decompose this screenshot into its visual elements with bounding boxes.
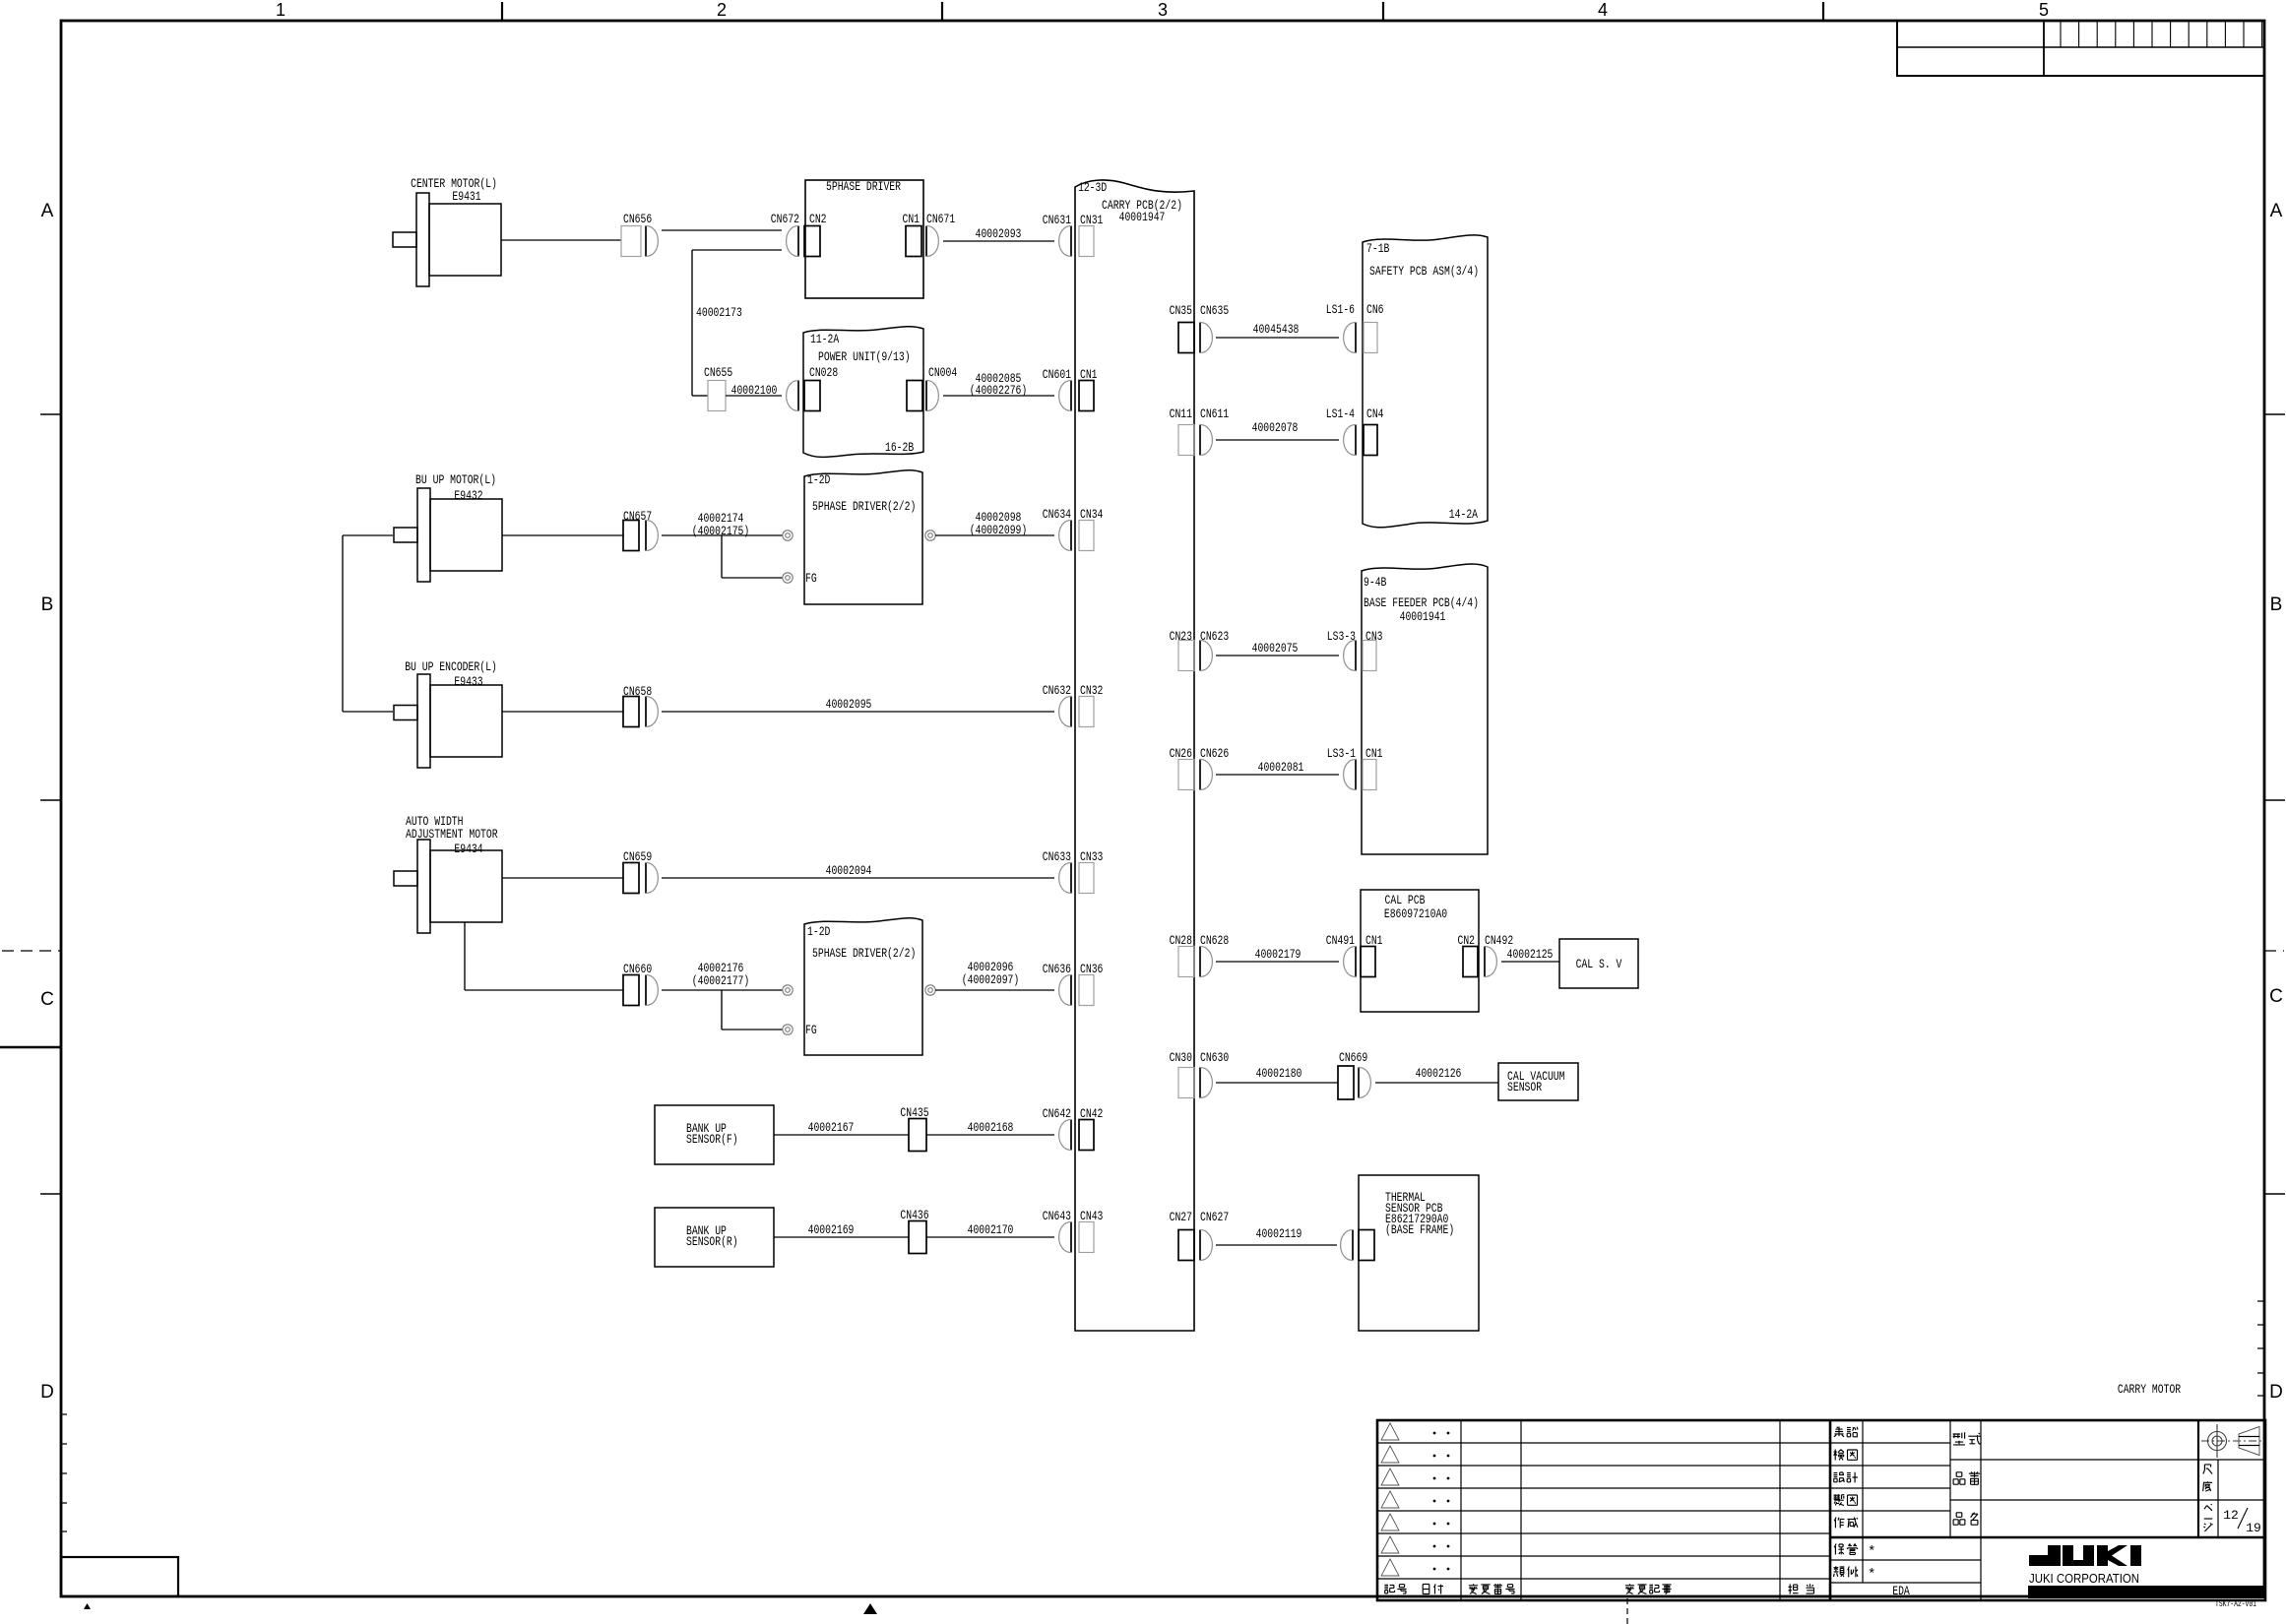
svg-text:40002081: 40002081 bbox=[1258, 760, 1304, 775]
connector thermal dplug bbox=[1352, 1230, 1354, 1261]
svg-text:CN643: CN643 bbox=[1043, 1209, 1071, 1223]
svg-text:CN004: CN004 bbox=[928, 365, 957, 380]
wire CN657 to driver bbox=[662, 534, 783, 536]
connector CN11 bbox=[1178, 425, 1194, 456]
revision table divider thick bbox=[1829, 1420, 1832, 1600]
bottom small mark triangle left bbox=[84, 1603, 91, 1609]
svg-text:B: B bbox=[41, 594, 54, 615]
row tick left A/B bbox=[40, 413, 61, 415]
svg-text:CN27: CN27 bbox=[1170, 1210, 1192, 1224]
svg-text:12: 12 bbox=[2223, 1508, 2239, 1523]
terminal input driver 2 bbox=[783, 985, 793, 995]
svg-text:4: 4 bbox=[1598, 0, 1608, 20]
svg-text:CN1: CN1 bbox=[1365, 746, 1383, 761]
wire 40002075 bbox=[1216, 655, 1339, 656]
connector CN26 bbox=[1178, 760, 1194, 790]
top right header table bbox=[1897, 21, 2264, 76]
svg-text:5: 5 bbox=[2039, 0, 2049, 20]
wire 40002085 bbox=[943, 395, 1054, 397]
svg-text:CN671: CN671 bbox=[926, 212, 955, 226]
svg-text:9-4B: 9-4B bbox=[1364, 575, 1387, 590]
connector CN6 bbox=[1364, 323, 1377, 353]
connector CN669 bbox=[1338, 1066, 1354, 1099]
svg-text:D: D bbox=[2269, 1382, 2283, 1403]
svg-text:CAL S. V: CAL S. V bbox=[1576, 957, 1622, 971]
type rows lines bbox=[1950, 1459, 2265, 1461]
page slash bbox=[2238, 1508, 2248, 1529]
label kanji 品名 bbox=[1953, 1513, 1965, 1525]
connector thermal rect bbox=[1359, 1230, 1374, 1261]
wire CN672 to junction lower bbox=[692, 249, 782, 251]
PCB box BASE FEEDER PCB(4/4) bbox=[1362, 564, 1488, 854]
box 5PHASE DRIVER(2/2) upper bbox=[804, 470, 922, 604]
connector CN35 bbox=[1178, 323, 1194, 353]
svg-text:CN658: CN658 bbox=[623, 684, 652, 699]
wire FG junction 2 bbox=[721, 990, 723, 1030]
connector CN27 bbox=[1178, 1230, 1194, 1261]
wire motor E9432 to CN657 bbox=[502, 534, 623, 536]
svg-text:CN657: CN657 bbox=[623, 509, 652, 524]
svg-text:CN42: CN42 bbox=[1080, 1106, 1103, 1121]
connector CN628 bbox=[1199, 947, 1201, 977]
wire 40002093 bbox=[943, 240, 1054, 242]
black bar bottom bbox=[2028, 1586, 2266, 1598]
svg-text:40002119: 40002119 bbox=[1256, 1226, 1302, 1241]
connector CN1 bbox=[1079, 381, 1094, 411]
svg-text:5PHASE DRIVER(2/2): 5PHASE DRIVER(2/2) bbox=[812, 499, 916, 514]
label kanji 変更番号 bbox=[1469, 1584, 1478, 1593]
svg-text:(40002177): (40002177) bbox=[692, 973, 750, 988]
svg-text:SENSOR: SENSOR bbox=[1507, 1080, 1542, 1094]
svg-text:CN630: CN630 bbox=[1200, 1050, 1229, 1065]
connector CN36 bbox=[1079, 975, 1094, 1006]
svg-text:CN642: CN642 bbox=[1043, 1106, 1071, 1121]
terminal FG driver 2 bbox=[783, 1025, 793, 1034]
svg-text:CN2: CN2 bbox=[1458, 933, 1476, 948]
connector CN635 bbox=[1199, 323, 1201, 353]
svg-text:CN655: CN655 bbox=[704, 365, 732, 380]
zone tick top 4/5 bbox=[1822, 2, 1824, 21]
svg-text:CARRY MOTOR: CARRY MOTOR bbox=[2118, 1382, 2181, 1397]
svg-text:40002169: 40002169 bbox=[808, 1222, 855, 1237]
connector CN631 bbox=[1070, 226, 1072, 257]
motor E9434 AUTO WIDTH ADJUSTMENT MOTOR bbox=[430, 850, 502, 922]
svg-text:(BASE FRAME): (BASE FRAME) bbox=[1385, 1222, 1454, 1237]
svg-text:A: A bbox=[2270, 201, 2283, 221]
centre fold mark left bbox=[0, 1046, 61, 1048]
svg-text:40002094: 40002094 bbox=[826, 863, 872, 878]
svg-text:CN11: CN11 bbox=[1170, 406, 1193, 421]
svg-text:CN633: CN633 bbox=[1043, 849, 1071, 864]
svg-text:CN3: CN3 bbox=[1365, 629, 1383, 644]
svg-text:C: C bbox=[40, 989, 54, 1010]
svg-text:CN23: CN23 bbox=[1170, 629, 1192, 644]
svg-text:CN491: CN491 bbox=[1326, 933, 1355, 948]
svg-text:B: B bbox=[2270, 594, 2283, 615]
connector CN672 bbox=[797, 226, 799, 257]
wire motor E9434 bottom drop bbox=[464, 922, 466, 990]
wire motor E9433 to CN658 bbox=[502, 711, 623, 713]
connector CN30 bbox=[1178, 1068, 1194, 1098]
svg-text:14-2A: 14-2A bbox=[1449, 507, 1478, 522]
connector CN004 dplug bbox=[925, 381, 927, 411]
svg-text:E9431: E9431 bbox=[452, 189, 480, 204]
connector CN004 of power unit bbox=[907, 381, 922, 411]
label kanji ページ vertical bbox=[2204, 1504, 2212, 1511]
svg-text:CN6: CN6 bbox=[1366, 302, 1384, 317]
svg-text:CN492: CN492 bbox=[1485, 933, 1513, 948]
connector CN633 bbox=[1070, 863, 1072, 894]
svg-text:CN627: CN627 bbox=[1200, 1210, 1229, 1224]
svg-text:40002180: 40002180 bbox=[1256, 1066, 1302, 1081]
connector CN4 bbox=[1364, 425, 1377, 456]
svg-text:40002168: 40002168 bbox=[968, 1120, 1014, 1135]
svg-text:1: 1 bbox=[276, 0, 286, 20]
svg-text:CN632: CN632 bbox=[1043, 683, 1071, 698]
projection symbol cone bbox=[2239, 1427, 2259, 1456]
svg-text:C: C bbox=[2269, 986, 2283, 1007]
connector LS3-1 bbox=[1355, 760, 1357, 790]
svg-text:CN28: CN28 bbox=[1170, 933, 1192, 948]
svg-text:CN669: CN669 bbox=[1339, 1050, 1367, 1065]
wire junction to CN655 bbox=[692, 395, 708, 397]
connector CN671 bbox=[925, 226, 927, 257]
svg-text:CN672: CN672 bbox=[771, 212, 799, 226]
svg-text:LS1-6: LS1-6 bbox=[1326, 302, 1355, 317]
svg-text:1-2D: 1-2D bbox=[807, 924, 831, 939]
terminal FG driver 1 bbox=[783, 573, 793, 583]
label kanji 記号 bbox=[1384, 1585, 1394, 1593]
vertical line 2012 bbox=[1980, 1420, 1982, 1600]
box POWER UNIT(9/13) bbox=[803, 327, 923, 458]
svg-text:CN26: CN26 bbox=[1170, 746, 1192, 761]
svg-text:E9432: E9432 bbox=[454, 488, 482, 503]
svg-text:11-2A: 11-2A bbox=[810, 332, 839, 346]
svg-text:CN32: CN32 bbox=[1080, 683, 1103, 698]
label kanji 変更記事 bbox=[1625, 1584, 1634, 1593]
connector CN657 bbox=[623, 521, 639, 551]
svg-text:(40002175): (40002175) bbox=[692, 524, 750, 538]
svg-text:(40002276): (40002276) bbox=[970, 383, 1028, 398]
bottom centre mark triangle bbox=[863, 1603, 877, 1614]
label kanji 尺度 vertical bbox=[2203, 1465, 2212, 1474]
motor E9431 CENTER MOTOR(L) bbox=[429, 204, 501, 276]
svg-text:40002093: 40002093 bbox=[976, 226, 1022, 241]
svg-text:5PHASE DRIVER: 5PHASE DRIVER bbox=[826, 179, 901, 194]
connector CN28 bbox=[1178, 947, 1194, 977]
connector CN028 of power unit bbox=[804, 381, 820, 411]
terminal output driver 2 bbox=[925, 985, 935, 995]
vertical line type col bbox=[1949, 1420, 1951, 1537]
svg-text:CN435: CN435 bbox=[900, 1105, 928, 1120]
connector CN1 base feeder bbox=[1363, 760, 1376, 790]
connector CN1 of 5phase driver bbox=[906, 226, 921, 257]
bottom dashed fold line bbox=[1626, 1598, 1628, 1624]
svg-text:CN36: CN36 bbox=[1080, 962, 1103, 976]
wire 40002119 bbox=[1216, 1244, 1337, 1246]
wire 40002167 bbox=[774, 1134, 909, 1136]
approval row lines bbox=[1830, 1442, 1950, 1444]
svg-text:SAFETY PCB ASM(3/4): SAFETY PCB ASM(3/4) bbox=[1369, 264, 1479, 279]
svg-text:CN2: CN2 bbox=[809, 212, 827, 226]
box 5PHASE DRIVER bbox=[805, 180, 923, 298]
wire driver2 to CN636 bbox=[935, 989, 1054, 991]
row tick left B/C bbox=[40, 799, 61, 801]
svg-text:3: 3 bbox=[1158, 0, 1168, 20]
svg-text:CN631: CN631 bbox=[1043, 213, 1071, 227]
row tick left C/D bbox=[40, 1193, 61, 1195]
connector CN627 bbox=[1199, 1230, 1201, 1261]
wire 40002179 bbox=[1216, 961, 1339, 963]
svg-text:7-1B: 7-1B bbox=[1366, 241, 1390, 256]
JUKI logo bbox=[2029, 1545, 2061, 1566]
wire 40045438 bbox=[1216, 337, 1339, 339]
wire motor E9431 to CN656 bbox=[501, 239, 621, 241]
svg-text:CN611: CN611 bbox=[1200, 406, 1229, 421]
wire 40002100 bbox=[726, 395, 782, 397]
svg-text:SENSOR(F): SENSOR(F) bbox=[686, 1132, 738, 1147]
zone tick top 1/2 bbox=[501, 2, 503, 21]
svg-text:FG: FG bbox=[805, 1023, 817, 1037]
box CAL S. V bbox=[1559, 939, 1638, 988]
svg-text:EDA: EDA bbox=[1892, 1584, 1910, 1598]
label kanji 製図 bbox=[1834, 1494, 1845, 1505]
svg-text:POWER UNIT(9/13): POWER UNIT(9/13) bbox=[818, 349, 911, 364]
svg-text:2: 2 bbox=[717, 0, 727, 20]
wire 40002170 bbox=[926, 1236, 1054, 1238]
svg-text:BU UP MOTOR(L): BU UP MOTOR(L) bbox=[415, 472, 496, 487]
svg-text:CN30: CN30 bbox=[1170, 1050, 1192, 1065]
connector CN611 bbox=[1199, 425, 1201, 456]
svg-text:CN659: CN659 bbox=[623, 849, 652, 864]
svg-text:CN1: CN1 bbox=[903, 212, 921, 226]
connector CN660 bbox=[623, 975, 639, 1006]
PCB box SAFETY PCB ASM(3/4) bbox=[1363, 235, 1488, 528]
title block outer frame bbox=[1377, 1420, 2265, 1600]
svg-text:16-2B: 16-2B bbox=[885, 440, 914, 455]
wire 40002173 vertical bbox=[691, 250, 693, 396]
svg-text:40001947: 40001947 bbox=[1119, 210, 1166, 224]
scale ticks left border bbox=[61, 1414, 67, 1531]
svg-text:CN626: CN626 bbox=[1200, 746, 1229, 761]
connector CN623 bbox=[1199, 641, 1201, 671]
wire driver1 to CN634 bbox=[935, 534, 1054, 536]
terminal input driver 1 bbox=[783, 531, 793, 540]
svg-text:CN1: CN1 bbox=[1080, 367, 1098, 382]
approval block thick separator bbox=[1830, 1536, 2265, 1538]
row tick right C/D bbox=[2264, 1193, 2285, 1195]
svg-text:CN656: CN656 bbox=[623, 212, 652, 226]
label kanji 保管 bbox=[1834, 1544, 1844, 1555]
label kanji 類似 bbox=[1834, 1566, 1845, 1577]
svg-text:CN660: CN660 bbox=[623, 962, 652, 976]
svg-text:E9433: E9433 bbox=[454, 674, 482, 689]
wire 40002169 bbox=[774, 1236, 909, 1238]
svg-text:FG: FG bbox=[805, 571, 817, 586]
svg-text:(40002099): (40002099) bbox=[970, 523, 1028, 537]
label kanji 検図 bbox=[1834, 1450, 1845, 1461]
box BANK UP SENSOR(R) bbox=[655, 1208, 774, 1267]
svg-text:LS1-4: LS1-4 bbox=[1326, 406, 1355, 421]
svg-text:40002173: 40002173 bbox=[696, 305, 742, 320]
connector CN655 bbox=[708, 381, 726, 411]
connector CN1 cal pcb bbox=[1361, 947, 1375, 977]
label kanji 日付 bbox=[1423, 1585, 1429, 1594]
fold dashed mark left bbox=[2, 950, 61, 952]
fold dashed mark right bbox=[2264, 950, 2284, 952]
connector CN656 bbox=[621, 226, 641, 257]
connector CN643 bbox=[1070, 1222, 1072, 1253]
connector CN32 bbox=[1079, 697, 1094, 727]
wire 40002095 bbox=[662, 711, 1054, 713]
svg-text:CN4: CN4 bbox=[1366, 406, 1384, 421]
connector CN436 bbox=[909, 1221, 926, 1254]
connector CN632 bbox=[1070, 697, 1072, 727]
svg-text:E86097210A0: E86097210A0 bbox=[1384, 906, 1447, 921]
connector CN659 bbox=[623, 863, 639, 894]
connector LS1-4 bbox=[1355, 425, 1357, 456]
svg-text:CAL PCB: CAL PCB bbox=[1385, 893, 1426, 907]
svg-text:*: * bbox=[1868, 1544, 1875, 1560]
svg-text:JUKI CORPORATION: JUKI CORPORATION bbox=[2029, 1571, 2139, 1586]
top right table tick columns bbox=[2061, 21, 2262, 47]
connector CN3 bbox=[1363, 641, 1376, 671]
wire 40002126 bbox=[1375, 1082, 1498, 1084]
zone tick top 3/4 bbox=[1382, 2, 1384, 21]
connector CN31 bbox=[1079, 226, 1094, 257]
connector CN2 of 5phase driver bbox=[804, 226, 820, 257]
svg-text:40002179: 40002179 bbox=[1255, 947, 1302, 962]
svg-text:40045438: 40045438 bbox=[1253, 322, 1300, 337]
svg-text:TSK7-A2-V01: TSK7-A2-V01 bbox=[2215, 1599, 2256, 1609]
connector CN630 bbox=[1199, 1068, 1201, 1098]
svg-text:BASE FEEDER PCB(4/4): BASE FEEDER PCB(4/4) bbox=[1364, 595, 1479, 610]
svg-text:D: D bbox=[40, 1382, 54, 1403]
row tick right B/C bbox=[2264, 799, 2285, 801]
svg-text:40002078: 40002078 bbox=[1252, 420, 1299, 435]
connector CN43 bbox=[1079, 1222, 1094, 1253]
svg-text:5PHASE DRIVER(2/2): 5PHASE DRIVER(2/2) bbox=[812, 946, 916, 961]
revision table column lines bbox=[1460, 1420, 1462, 1600]
svg-text:1-2D: 1-2D bbox=[807, 472, 831, 487]
svg-text:*: * bbox=[1868, 1567, 1875, 1583]
svg-text:CN623: CN623 bbox=[1200, 629, 1229, 644]
svg-text:CN436: CN436 bbox=[900, 1208, 928, 1222]
svg-text:CN35: CN35 bbox=[1170, 303, 1192, 318]
svg-text:40001941: 40001941 bbox=[1400, 609, 1446, 624]
connector CN626 bbox=[1199, 760, 1201, 790]
wire link E9433 left bbox=[343, 711, 393, 713]
svg-text:LS3-3: LS3-3 bbox=[1327, 629, 1356, 644]
motor E9433 BU UP ENCODER(L) bbox=[430, 685, 502, 757]
label kanji 担当 bbox=[1788, 1584, 1798, 1593]
svg-text:CN31: CN31 bbox=[1080, 213, 1104, 227]
connector CN658 bbox=[623, 697, 639, 727]
connector CN435 bbox=[909, 1119, 926, 1152]
connector CN34 bbox=[1079, 521, 1094, 551]
svg-text:40002126: 40002126 bbox=[1416, 1066, 1462, 1081]
wire 40002168 bbox=[926, 1134, 1054, 1136]
wire link E9432 left bbox=[343, 534, 393, 536]
PCB box CARRY PCB(2/2) bbox=[1075, 180, 1194, 1331]
box BANK UP SENSOR(F) bbox=[655, 1105, 774, 1164]
bottom left corner box bbox=[61, 1557, 178, 1596]
svg-text:BU UP ENCODER(L): BU UP ENCODER(L) bbox=[405, 659, 497, 674]
connector LS3-3 bbox=[1355, 641, 1357, 671]
wire 40002125 bbox=[1501, 961, 1559, 963]
svg-text:A: A bbox=[41, 201, 54, 221]
row tick right A/B bbox=[2264, 413, 2285, 415]
svg-text:SENSOR(R): SENSOR(R) bbox=[686, 1234, 738, 1249]
svg-text:40002167: 40002167 bbox=[808, 1120, 855, 1135]
svg-text:40002125: 40002125 bbox=[1507, 947, 1554, 962]
approval column line bbox=[1862, 1420, 1864, 1583]
connector CN491 bbox=[1355, 947, 1357, 977]
svg-text:19: 19 bbox=[2246, 1521, 2261, 1535]
connector CN642 bbox=[1070, 1120, 1072, 1151]
svg-text:40002075: 40002075 bbox=[1252, 641, 1299, 656]
wire CN656 to CN672 upper bbox=[662, 229, 782, 231]
zone tick top 2/3 bbox=[941, 2, 943, 21]
connector CN2 cal pcb bbox=[1463, 947, 1478, 977]
revision triangles and date dots bbox=[1381, 1423, 1399, 1440]
box 5PHASE DRIVER(2/2) lower bbox=[804, 918, 922, 1055]
connector CN23 bbox=[1178, 641, 1194, 671]
svg-text:40002170: 40002170 bbox=[968, 1222, 1014, 1237]
svg-text:CN601: CN601 bbox=[1043, 367, 1071, 382]
svg-text:CN43: CN43 bbox=[1080, 1209, 1103, 1223]
svg-text:40002095: 40002095 bbox=[826, 697, 872, 712]
wire 40002078 bbox=[1216, 439, 1339, 441]
terminal output driver 1 bbox=[925, 531, 935, 540]
label kanji 作成 bbox=[1834, 1518, 1844, 1529]
svg-text:E9434: E9434 bbox=[454, 842, 482, 856]
revision table row lines bbox=[1377, 1442, 1830, 1444]
wire motor E9434 to CN659 bbox=[502, 877, 623, 879]
svg-text:(40002097): (40002097) bbox=[962, 972, 1020, 987]
projection symbol circle bbox=[2208, 1432, 2227, 1451]
svg-text:CN1: CN1 bbox=[1365, 933, 1383, 948]
PCB box CAL PCB bbox=[1361, 890, 1479, 1012]
svg-text:CN34: CN34 bbox=[1080, 507, 1104, 522]
svg-text:CN634: CN634 bbox=[1043, 507, 1071, 522]
scale ticks right border bbox=[2257, 1301, 2264, 1396]
wire link vertical bbox=[342, 535, 344, 712]
motor E9432 BU UP MOTOR(L) bbox=[430, 499, 502, 571]
svg-text:CN028: CN028 bbox=[809, 365, 838, 380]
svg-text:ADJUSTMENT MOTOR: ADJUSTMENT MOTOR bbox=[406, 827, 498, 842]
label kanji 設計 bbox=[1834, 1472, 1845, 1482]
svg-text:40002100: 40002100 bbox=[731, 383, 778, 398]
connector CN33 bbox=[1079, 863, 1094, 894]
connector CN42 bbox=[1079, 1120, 1094, 1151]
connector CN636 bbox=[1070, 975, 1072, 1006]
svg-text:LS3-1: LS3-1 bbox=[1327, 746, 1356, 761]
connector CN492 bbox=[1484, 947, 1486, 977]
label kanji 承認 bbox=[1834, 1427, 1844, 1437]
connector LS1-6 bbox=[1355, 323, 1357, 353]
label kanji 品番 bbox=[1953, 1472, 1965, 1484]
wire 40002180 bbox=[1216, 1082, 1338, 1084]
hokan/ruiji row lines bbox=[1830, 1559, 1981, 1561]
label kanji 型式 bbox=[1953, 1432, 1965, 1445]
connector CN601 bbox=[1070, 381, 1072, 411]
box CAL VACUUM SENSOR bbox=[1498, 1063, 1578, 1100]
wire 40002094 bbox=[662, 877, 1054, 879]
svg-text:CN33: CN33 bbox=[1080, 849, 1103, 864]
PCB box THERMAL SENSOR PCB bbox=[1359, 1175, 1479, 1331]
wire 40002081 bbox=[1216, 774, 1339, 776]
